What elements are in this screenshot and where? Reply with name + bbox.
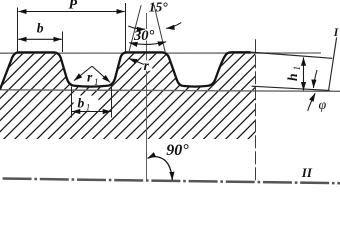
- svg-text:r: r: [87, 70, 93, 85]
- svg-text:φ: φ: [319, 98, 327, 113]
- white box for label 30 deg: [136, 29, 158, 41]
- dimension b1: dimension line with arrows: [72, 111, 111, 113]
- svg-text:1: 1: [292, 66, 302, 71]
- crest line (thin, across tops of teeth): [0, 52, 321, 54]
- leader arrow for r: [129, 58, 144, 64]
- hatching of sectioned thread body: [0, 33, 340, 145]
- svg-text:1: 1: [94, 77, 99, 87]
- 15 deg arc right tail with arrow: [166, 23, 181, 29]
- phi angle upper arc arrow: [314, 70, 318, 88]
- white box for label b1: [74, 96, 99, 112]
- dimension b: dimension line with arrows: [18, 38, 61, 40]
- white box for label r: [141, 60, 152, 71]
- leader arrows for r1: [74, 66, 92, 81]
- dimension P: extension line left: [17, 8, 19, 53]
- 90 deg arc with arrows: [148, 157, 173, 181]
- axis line II (thick dash-dot): [0, 179, 340, 184]
- dimension b: extension line right: [62, 32, 64, 53]
- svg-text:1: 1: [86, 103, 91, 113]
- phi angle lower arc arrow: [308, 93, 316, 111]
- dimension h1 (vertical double arrow): [303, 57, 305, 90]
- svg-text:b: b: [37, 21, 44, 36]
- centerline of tooth 2 (vertical, forms 90 deg with axis): [146, 13, 148, 181]
- tilted root line L2 (angle phi, bottom right): [252, 86, 330, 90]
- svg-text:r: r: [144, 58, 150, 73]
- svg-text:90°: 90°: [166, 142, 189, 159]
- dimension b1: extension lines: [71, 87, 73, 118]
- svg-text:II: II: [301, 165, 313, 180]
- dimension P: extension line right: [125, 3, 127, 52]
- section boundary (dashed vertical edge of hatched body): [255, 39, 257, 181]
- flank extension line left (for 30 deg): [129, 5, 142, 53]
- tilted crest line (angle phi, top right): [251, 52, 333, 58]
- dimension P: dimension line with arrows: [18, 11, 124, 13]
- svg-text:30°: 30°: [133, 28, 155, 44]
- flank extension line right (for 15/30 deg): [154, 5, 165, 53]
- line I (slanted reference line, right): [329, 38, 337, 91]
- svg-text:b: b: [78, 96, 85, 111]
- svg-text:h: h: [285, 73, 300, 81]
- thread profile outline (thick): [0, 52, 251, 89]
- root line (thin gray, full width): [0, 90, 340, 92]
- 15 deg arc left tail with arrow: [128, 26, 145, 29]
- svg-text:P: P: [69, 0, 78, 13]
- 30 deg arc with arrows: [129, 42, 166, 45]
- svg-text:I: I: [333, 27, 339, 39]
- svg-text:15°: 15°: [149, 0, 169, 14]
